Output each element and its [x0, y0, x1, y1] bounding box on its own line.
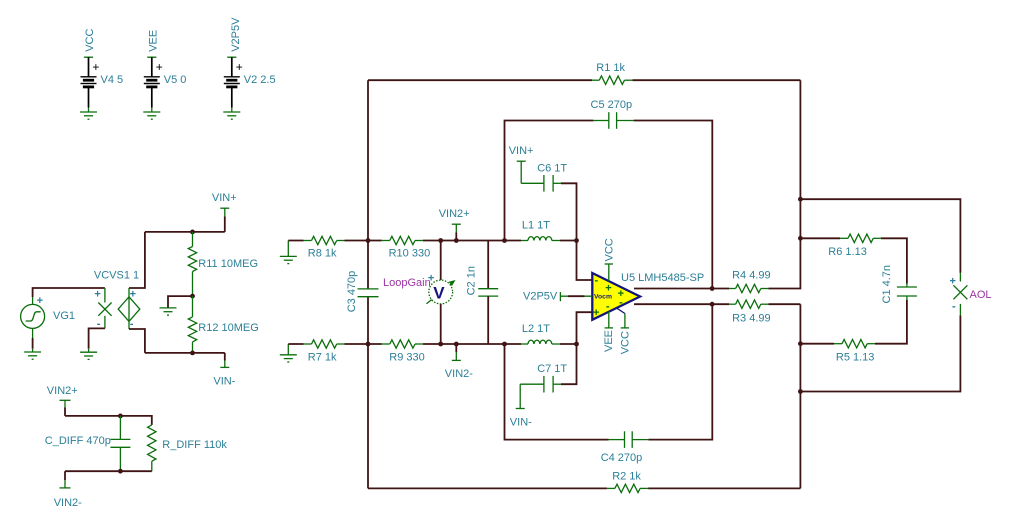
node C4 stub bottom rail: [502, 342, 507, 347]
pin VCC bottom (PD) of op-amp: [617, 308, 629, 328]
svg-text:V2P5V: V2P5V: [230, 17, 242, 52]
svg-text:VEE: VEE: [147, 30, 159, 52]
svg-text:+: +: [130, 289, 136, 301]
resistor R8: [304, 236, 345, 244]
ground at VCVS: [80, 349, 97, 360]
wire R3 to right lower vertical: [769, 303, 801, 305]
node op-amp input stub top: [574, 238, 579, 243]
svg-text:R12 10MEG: R12 10MEG: [198, 322, 259, 334]
terminal VIN-: [220, 353, 229, 368]
resistor R3: [729, 300, 768, 308]
capacitor C3 (inline on left vertical): [358, 289, 379, 297]
node VIN- row / R12: [190, 351, 195, 356]
capacitor C5: [593, 112, 633, 129]
svg-text:VIN-: VIN-: [510, 417, 532, 429]
svg-text:VCVS1 1: VCVS1 1: [94, 270, 139, 282]
pin VCC top of op-amp: [605, 264, 613, 281]
wire op-amp out-: [634, 303, 729, 305]
wire AOL loop: [800, 199, 960, 391]
node out-: [710, 302, 715, 307]
svg-text:+: +: [236, 60, 243, 74]
svg-text:R11 10MEG: R11 10MEG: [198, 258, 258, 270]
wire VCVS X minus to ground: [89, 328, 105, 348]
svg-text:-: -: [619, 297, 623, 309]
terminal VIN+ (C6): [517, 161, 526, 183]
svg-text:VG1: VG1: [53, 310, 75, 322]
node out+: [710, 286, 715, 291]
wire outer loop bottom rail: [368, 487, 800, 489]
svg-text:-: -: [595, 275, 599, 287]
capacitor C6: [521, 175, 561, 192]
svg-text:L2 1T: L2 1T: [522, 323, 550, 335]
terminal VIN+: [220, 208, 229, 232]
svg-text:R1 1k: R1 1k: [596, 62, 625, 74]
wire VIN+ row: [145, 231, 225, 233]
svg-text:C1 4.7n: C1 4.7n: [881, 265, 893, 304]
node R6 row: [798, 236, 803, 241]
svg-text:-: -: [606, 301, 610, 313]
node C_DIFF top: [118, 414, 123, 419]
capacitor C2: [478, 241, 498, 345]
meter AOL: [950, 273, 968, 316]
svg-text:VIN-: VIN-: [213, 376, 235, 388]
svg-text:+: +: [605, 282, 611, 294]
inductor L1: [521, 237, 560, 241]
wire C6 to op-amp minus input stub: [561, 183, 592, 280]
terminal V2P5V: [560, 292, 592, 301]
capacitor C7: [520, 376, 561, 393]
svg-text:VIN+: VIN+: [212, 192, 237, 204]
node op-amp input stub bottom: [574, 342, 579, 347]
svg-text:C4 270p: C4 270p: [601, 452, 643, 464]
svg-text:+: +: [593, 307, 599, 319]
node left vertical x bottom rail: [366, 342, 371, 347]
node meter bottom: [438, 342, 443, 347]
op-amp U5 LMH5485-SP: [592, 273, 640, 320]
node VIN+ row / R11: [190, 230, 195, 235]
svg-text:U5 LMH5485-SP: U5 LMH5485-SP: [621, 272, 704, 284]
node AOL top: [798, 197, 803, 202]
svg-text:L1 1T: L1 1T: [522, 220, 550, 232]
svg-text:R9 330: R9 330: [389, 351, 424, 363]
wire R6 row: [800, 238, 907, 283]
svg-text:+: +: [94, 289, 100, 301]
svg-text:+: +: [92, 60, 99, 74]
terminal VIN- (C7): [516, 384, 525, 408]
svg-text:C6 1T: C6 1T: [537, 163, 567, 175]
wire bottom mid rail: [288, 343, 576, 345]
wire C4 stub and row: [505, 304, 713, 439]
node C5 stub top rail: [502, 238, 507, 243]
wire VIN- row: [145, 352, 225, 354]
battery V2: [224, 57, 243, 112]
svg-text:V2 2.5: V2 2.5: [244, 74, 276, 86]
ground at V4: [80, 112, 97, 119]
svg-text:R10 330: R10 330: [389, 247, 431, 259]
wire VG1 bottom to ground: [32, 338, 34, 349]
battery V4: [81, 57, 100, 112]
terminal VIN2- (mid): [452, 344, 461, 360]
resistor R_DIFF: [148, 425, 156, 471]
terminal VIN2-: [60, 471, 71, 488]
resistor R12: [188, 296, 196, 353]
inductor L2: [521, 340, 560, 344]
wire VG1 top to VCVS input: [33, 288, 105, 297]
resistor R1: [592, 76, 632, 84]
resistor R7: [304, 340, 345, 348]
wire C7 to op-amp plus input stub: [561, 312, 592, 384]
resistor R4: [729, 284, 768, 292]
node C_DIFF bottom: [118, 469, 123, 474]
svg-text:+: +: [950, 276, 956, 288]
svg-text:V2P5V: V2P5V: [523, 291, 558, 303]
wire op-amp out+: [634, 288, 729, 290]
svg-text:VCC: VCC: [620, 331, 632, 354]
capacitor C_DIFF: [110, 416, 130, 471]
svg-text:C7 1T: C7 1T: [537, 363, 567, 375]
node AOL bottom: [798, 389, 803, 394]
svg-text:R5 1.13: R5 1.13: [836, 352, 875, 364]
svg-text:V4 5: V4 5: [101, 74, 124, 86]
ground at R7: [280, 344, 297, 362]
svg-text:+: +: [156, 60, 163, 74]
wire C1 bottom to R5 row: [800, 300, 907, 344]
svg-text:AOL: AOL: [970, 289, 992, 301]
svg-text:V5 0: V5 0: [164, 74, 187, 86]
svg-text:VIN2+: VIN2+: [47, 385, 78, 397]
node R5 row: [798, 341, 803, 346]
resistor R5: [834, 340, 875, 348]
ground at R11/R12: [160, 308, 177, 315]
svg-text:R2 1k: R2 1k: [612, 471, 641, 483]
controlled source VCVS1 output diamond: [118, 288, 140, 330]
meter LoopGain: [427, 241, 456, 345]
resistor R10: [382, 236, 423, 244]
svg-text:C5 270p: C5 270p: [591, 99, 633, 111]
wire VCVS output- to VIN- row: [129, 329, 145, 353]
wire VCVS output+ to VIN+ row: [129, 232, 145, 288]
svg-text:LoopGain: LoopGain: [383, 277, 431, 289]
wire midpoint to ground: [168, 296, 193, 308]
node VIN2+ terminal: [454, 238, 459, 243]
controlled source VCVS1 input X: [94, 288, 111, 330]
terminal VIN2+ (differential input): [60, 400, 71, 416]
svg-text:R6 1.13: R6 1.13: [828, 246, 867, 258]
capacitor C4: [609, 431, 649, 448]
wire top mid rail: [288, 240, 576, 242]
resistor R11: [188, 232, 196, 296]
svg-text:Vocm: Vocm: [594, 294, 612, 301]
svg-text:VIN+: VIN+: [509, 145, 534, 157]
svg-text:R_DIFF 110k: R_DIFF 110k: [162, 439, 227, 451]
node meter top: [438, 238, 443, 243]
svg-text:VCC: VCC: [604, 238, 616, 261]
ground at V5: [143, 112, 160, 119]
svg-text:R3 4.99: R3 4.99: [732, 312, 771, 324]
node left vertical x top rail: [366, 238, 371, 243]
svg-text:R8 1k: R8 1k: [308, 247, 337, 259]
wire outer loop left vertical: [367, 80, 369, 488]
wire C5 stub and row: [505, 121, 713, 289]
wire C_DIFF bottom row: [65, 470, 152, 472]
capacitor C1: [897, 284, 917, 301]
resistor R6: [840, 234, 881, 242]
wire outer loop right lower vertical (OUT- net): [799, 304, 801, 488]
wire outer loop right upper vertical (OUT+ net): [769, 80, 801, 288]
terminal VIN2+ (mid): [452, 224, 461, 240]
wire outer loop top rail: [368, 79, 800, 81]
svg-text:V: V: [433, 283, 445, 302]
svg-text:VIN2+: VIN2+: [439, 208, 470, 220]
svg-text:VIN2-: VIN2-: [445, 368, 473, 380]
node R11/R12 midpoint: [190, 294, 195, 299]
svg-text:-: -: [952, 301, 956, 313]
ground at R8: [280, 241, 297, 264]
svg-text:R4 4.99: R4 4.99: [732, 270, 771, 282]
svg-text:VCC: VCC: [84, 29, 96, 52]
pin VEE bottom of op-amp: [605, 312, 613, 328]
wire VIN2+ to C_DIFF/R_DIFF top: [65, 416, 152, 425]
voltage generator VG1: [21, 295, 45, 338]
resistor R9: [382, 340, 423, 348]
svg-text:C3 470p: C3 470p: [346, 271, 358, 313]
svg-text:C2 1n: C2 1n: [466, 266, 478, 295]
svg-text:+: +: [37, 295, 43, 307]
ground at VG1: [24, 349, 41, 359]
battery V5: [144, 57, 163, 112]
svg-text:C_DIFF 470p: C_DIFF 470p: [45, 435, 111, 447]
svg-text:R7 1k: R7 1k: [308, 351, 337, 363]
node VIN2- terminal: [454, 342, 459, 347]
resistor R2: [607, 484, 648, 492]
ground at V2: [223, 112, 240, 119]
svg-text:VIN2-: VIN2-: [54, 497, 82, 509]
svg-text:VEE: VEE: [603, 330, 615, 352]
